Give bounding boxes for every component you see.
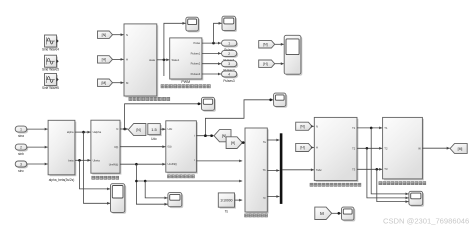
svg-text:Ts: Ts xyxy=(225,209,229,213)
svg-text:[M]: [M] xyxy=(101,81,106,85)
outport 2 Pulses1 xyxy=(222,50,239,57)
from tag [N] (top) xyxy=(98,31,113,38)
svg-text:T3: T3 xyxy=(384,167,388,171)
svg-text:[H]: [H] xyxy=(300,146,304,150)
sine wave source Sine Wave5 xyxy=(45,55,59,68)
svg-text:[N]: [N] xyxy=(222,134,226,138)
svg-text:alpha: alpha xyxy=(67,130,74,134)
svg-text:Udc: Udc xyxy=(168,127,173,131)
subsystem vector time calculation xyxy=(166,121,198,174)
wire wrap-around from sector junction to Scope4 xyxy=(205,98,273,135)
junction Pulse wire xyxy=(212,42,215,45)
wire UrefN branch to block D input 3 xyxy=(136,180,242,183)
wire beta branch to scope input 1 xyxy=(80,160,111,190)
svg-text:[N]: [N] xyxy=(102,33,106,37)
scope Scope7 (Uref display) xyxy=(168,193,183,209)
svg-text:Tabc: Tabc xyxy=(316,168,322,172)
svg-text:sina: sina xyxy=(18,134,24,138)
svg-text:N: N xyxy=(316,124,318,128)
wire inport1 to alpha_beta xyxy=(27,128,48,131)
svg-text:1.5: 1.5 xyxy=(151,127,157,132)
wire [M] to Scope9 xyxy=(332,212,341,215)
svg-text:PWM: PWM xyxy=(181,80,190,84)
svg-text:Ualpha: Ualpha xyxy=(93,130,102,134)
wire alpha branch to scope input 2 xyxy=(84,132,111,205)
wire T2 branch to Scope8 input 2 xyxy=(367,148,409,199)
wire from tag H to block D input 1 xyxy=(242,141,245,144)
wire Udc to block C input 1 xyxy=(160,128,165,131)
wire [N] to subsystem input 1 xyxy=(113,33,124,36)
junction on N wire xyxy=(123,128,126,131)
label: vector state assignment (CJK) xyxy=(129,97,170,100)
junction on D-input3 wire xyxy=(144,180,147,183)
wire inport3 to alpha_beta xyxy=(27,163,48,166)
label: vector state to switch state conversion (CJK) xyxy=(161,85,210,88)
label under block D (CJK) xyxy=(245,214,268,217)
wire branch up to scope2 xyxy=(214,22,222,43)
goto tag [N] (before D) xyxy=(214,130,231,142)
constant block 1/10000 (Ts) xyxy=(218,193,236,209)
wire UrefN branch down to Scope7 input 2 xyxy=(136,164,167,205)
svg-text:Pulses3: Pulses3 xyxy=(223,79,235,83)
svg-text:Pulses3: Pulses3 xyxy=(191,72,201,76)
arrow-side dot at Scope5 xyxy=(198,103,201,106)
svg-text:State1: State1 xyxy=(172,58,180,62)
svg-text:0(t): 0(t) xyxy=(114,145,118,149)
from tag [H] (into D) xyxy=(226,137,242,149)
wire [H] to subsystem input 2 xyxy=(113,58,124,61)
wire state to PWM State1 xyxy=(157,58,170,61)
svg-text:Pulses1: Pulses1 xyxy=(191,51,201,55)
svg-text:alpha_beta(3s/2s): alpha_beta(3s/2s) xyxy=(49,178,75,182)
subsystem modulation time sequencing xyxy=(245,128,269,213)
wire T2 to block F xyxy=(357,147,382,150)
goto tag [M] (right) xyxy=(450,144,467,154)
svg-text:N: N xyxy=(116,127,118,131)
scope Scope5 (N display) xyxy=(202,97,216,111)
svg-text:Ta: Ta xyxy=(263,140,266,144)
svg-text:T2: T2 xyxy=(384,146,388,150)
wire Pulses2 to outport xyxy=(202,62,221,65)
svg-text:1/10000: 1/10000 xyxy=(220,199,232,203)
svg-text:Pulse: Pulse xyxy=(193,41,200,45)
scope Scope8 (T display) xyxy=(409,191,424,206)
svg-text:3: 3 xyxy=(228,62,230,66)
wire theta to block C xyxy=(120,145,165,148)
junction C out1 a xyxy=(204,134,207,137)
mux (vertical bar) xyxy=(280,133,283,204)
scope Scope1 (top) xyxy=(186,17,200,32)
wire Pulses1 to outport xyxy=(202,52,221,55)
svg-text:[M]: [M] xyxy=(458,147,463,151)
outport 4 Pulses3 xyxy=(222,71,239,78)
wire Tb to mux xyxy=(267,169,279,172)
wire T1 to block F xyxy=(357,127,382,130)
wire Tc to mux xyxy=(267,195,279,198)
from tag [N] (block E) xyxy=(296,122,312,130)
svg-text:2: 2 xyxy=(228,52,230,56)
junction UrefN-D branch start xyxy=(135,180,138,183)
svg-text:sinc: sinc xyxy=(18,169,24,173)
from tag [M] (top) xyxy=(98,79,113,86)
label under block E (CJK) xyxy=(310,183,361,186)
svg-text:4: 4 xyxy=(228,72,230,76)
from tag [M] (bottom) xyxy=(315,207,332,219)
junction at D input 1 xyxy=(242,141,245,144)
sine wave source Sine Wave6 xyxy=(45,74,59,87)
wire [N] to Scope3 input 1 xyxy=(275,43,284,46)
outport 3 Pulses2 xyxy=(222,61,239,68)
junction T1 xyxy=(370,127,373,130)
scope Scope4 xyxy=(274,93,288,108)
svg-text:1: 1 xyxy=(228,42,230,46)
svg-text:1: 1 xyxy=(20,128,22,132)
wire alpha to Ualpha xyxy=(75,131,91,134)
wire W to goto tag [M] xyxy=(422,147,449,150)
subsystem inverter vector and switch mapping xyxy=(383,117,424,180)
wire N to goto tag xyxy=(120,128,128,131)
junction C out1 b xyxy=(210,134,213,137)
junction on UrefN wire xyxy=(135,163,138,166)
wire Ta to mux xyxy=(267,139,279,142)
label under block C (CJK) xyxy=(168,175,195,178)
scope Scope9 (bottom) xyxy=(342,207,356,221)
junction T3 xyxy=(376,168,379,171)
wire inport2 to alpha_beta xyxy=(27,146,48,149)
junction T2 xyxy=(366,147,369,150)
constant block 1.5 (Udc) xyxy=(148,124,162,137)
wire Ts to block D input 4 xyxy=(235,199,243,202)
svg-text:beta: beta xyxy=(68,159,74,163)
junction on sector wire (scope4 branch) xyxy=(204,134,207,137)
wire beta to Ubeta xyxy=(75,159,91,162)
label under block F (CJK) xyxy=(379,182,426,185)
svg-text:UrefN(t): UrefN(t) xyxy=(168,162,178,166)
arrow-side dot at Scope9 xyxy=(338,212,341,215)
svg-text:Sine Wave6: Sine Wave6 xyxy=(42,86,59,90)
svg-text:sinb: sinb xyxy=(18,152,24,156)
wire [H] to block E input 2 xyxy=(311,146,314,149)
scope Scope2 (top) xyxy=(222,16,237,32)
svg-text:0(t): 0(t) xyxy=(168,145,172,149)
wire T3 branch to Scope8 input 3 xyxy=(377,169,409,203)
sine wave source Sine Wave4 xyxy=(45,35,59,48)
svg-text:2: 2 xyxy=(20,146,22,150)
wire [H] to Scope3 input 2 xyxy=(275,62,284,65)
svg-text:[H]: [H] xyxy=(263,62,267,66)
subsystem alpha_beta transform xyxy=(48,120,76,176)
svg-text:T3: T3 xyxy=(352,167,356,171)
wire C out2 to block D input 2 xyxy=(196,160,242,163)
svg-text:CSDN @2301_76986046: CSDN @2301_76986046 xyxy=(383,217,469,226)
subsystem action time and vector sequence mapping xyxy=(314,117,358,182)
inport 2 xyxy=(15,144,28,151)
svg-text:T1: T1 xyxy=(384,126,388,130)
outport 1 Pulses xyxy=(222,40,239,47)
from tag [H] (scope feed) xyxy=(259,60,275,67)
svg-text:T2: T2 xyxy=(352,146,356,150)
wire [N] to block E input 1 xyxy=(311,125,314,128)
from tag [H] (block E) xyxy=(296,143,312,151)
junction on alpha wire xyxy=(82,131,85,134)
wire UrefN to block C xyxy=(120,163,165,166)
svg-text:[N]: [N] xyxy=(136,128,140,132)
wire branch to Scope7 input 1 xyxy=(145,181,167,199)
svg-text:M: M xyxy=(320,211,324,216)
svg-text:UrefN(t): UrefN(t) xyxy=(109,163,119,167)
wire [M] to subsystem input 3 xyxy=(113,81,124,84)
wire state branch up to scope1 xyxy=(164,22,186,76)
wire Pulse to outport xyxy=(202,42,221,45)
svg-text:Sine Wave5: Sine Wave5 xyxy=(42,68,59,72)
wire N branch to Scope5 xyxy=(125,102,202,129)
inport 1 xyxy=(15,126,28,133)
wire T1 branch to Scope8 input 1 xyxy=(371,128,408,195)
svg-text:Sine Wave4: Sine Wave4 xyxy=(42,48,59,52)
wire T3 to block F xyxy=(357,168,382,171)
subsystem: vector state assignment xyxy=(124,24,158,97)
svg-text:W: W xyxy=(418,146,421,150)
svg-text:Ubeta: Ubeta xyxy=(93,159,101,163)
wire Pulses3 to outport xyxy=(202,73,221,76)
goto tag [N] (sector) xyxy=(128,124,146,136)
svg-text:Tb: Tb xyxy=(263,168,267,172)
subsystem PWM: state to switch conversion xyxy=(170,38,204,80)
svg-text:[H]: [H] xyxy=(102,58,106,62)
svg-text:state: state xyxy=(149,58,156,62)
svg-text:T1: T1 xyxy=(352,126,356,130)
svg-text:[H]: [H] xyxy=(231,141,235,145)
arrow-side dot at Scope4 xyxy=(269,99,272,102)
subsystem sector N and Uref calculation xyxy=(91,120,122,174)
svg-text:[N]: [N] xyxy=(300,125,304,129)
from tag [N] (scope feed) xyxy=(259,41,275,48)
junction on state wire xyxy=(163,59,166,62)
svg-text:3: 3 xyxy=(20,162,22,166)
from tag [H] (top) xyxy=(98,56,113,63)
svg-text:[N]: [N] xyxy=(263,43,267,47)
wire mux output Tabc to block E xyxy=(282,168,314,171)
label under block B (CJK) xyxy=(92,176,119,179)
svg-text:Udc: Udc xyxy=(151,137,157,141)
scope Scope6 (alpha beta display) xyxy=(111,184,127,214)
wire C out1 to goto tag N2 xyxy=(196,134,213,137)
svg-text:Pulses2: Pulses2 xyxy=(191,62,201,66)
scope Scope3 (two inputs) xyxy=(284,35,302,75)
junction on beta wire xyxy=(78,159,81,162)
svg-text:N: N xyxy=(126,33,128,37)
svg-text:H: H xyxy=(316,146,318,150)
inport 3 xyxy=(15,161,28,168)
svg-text:H: H xyxy=(126,58,128,62)
